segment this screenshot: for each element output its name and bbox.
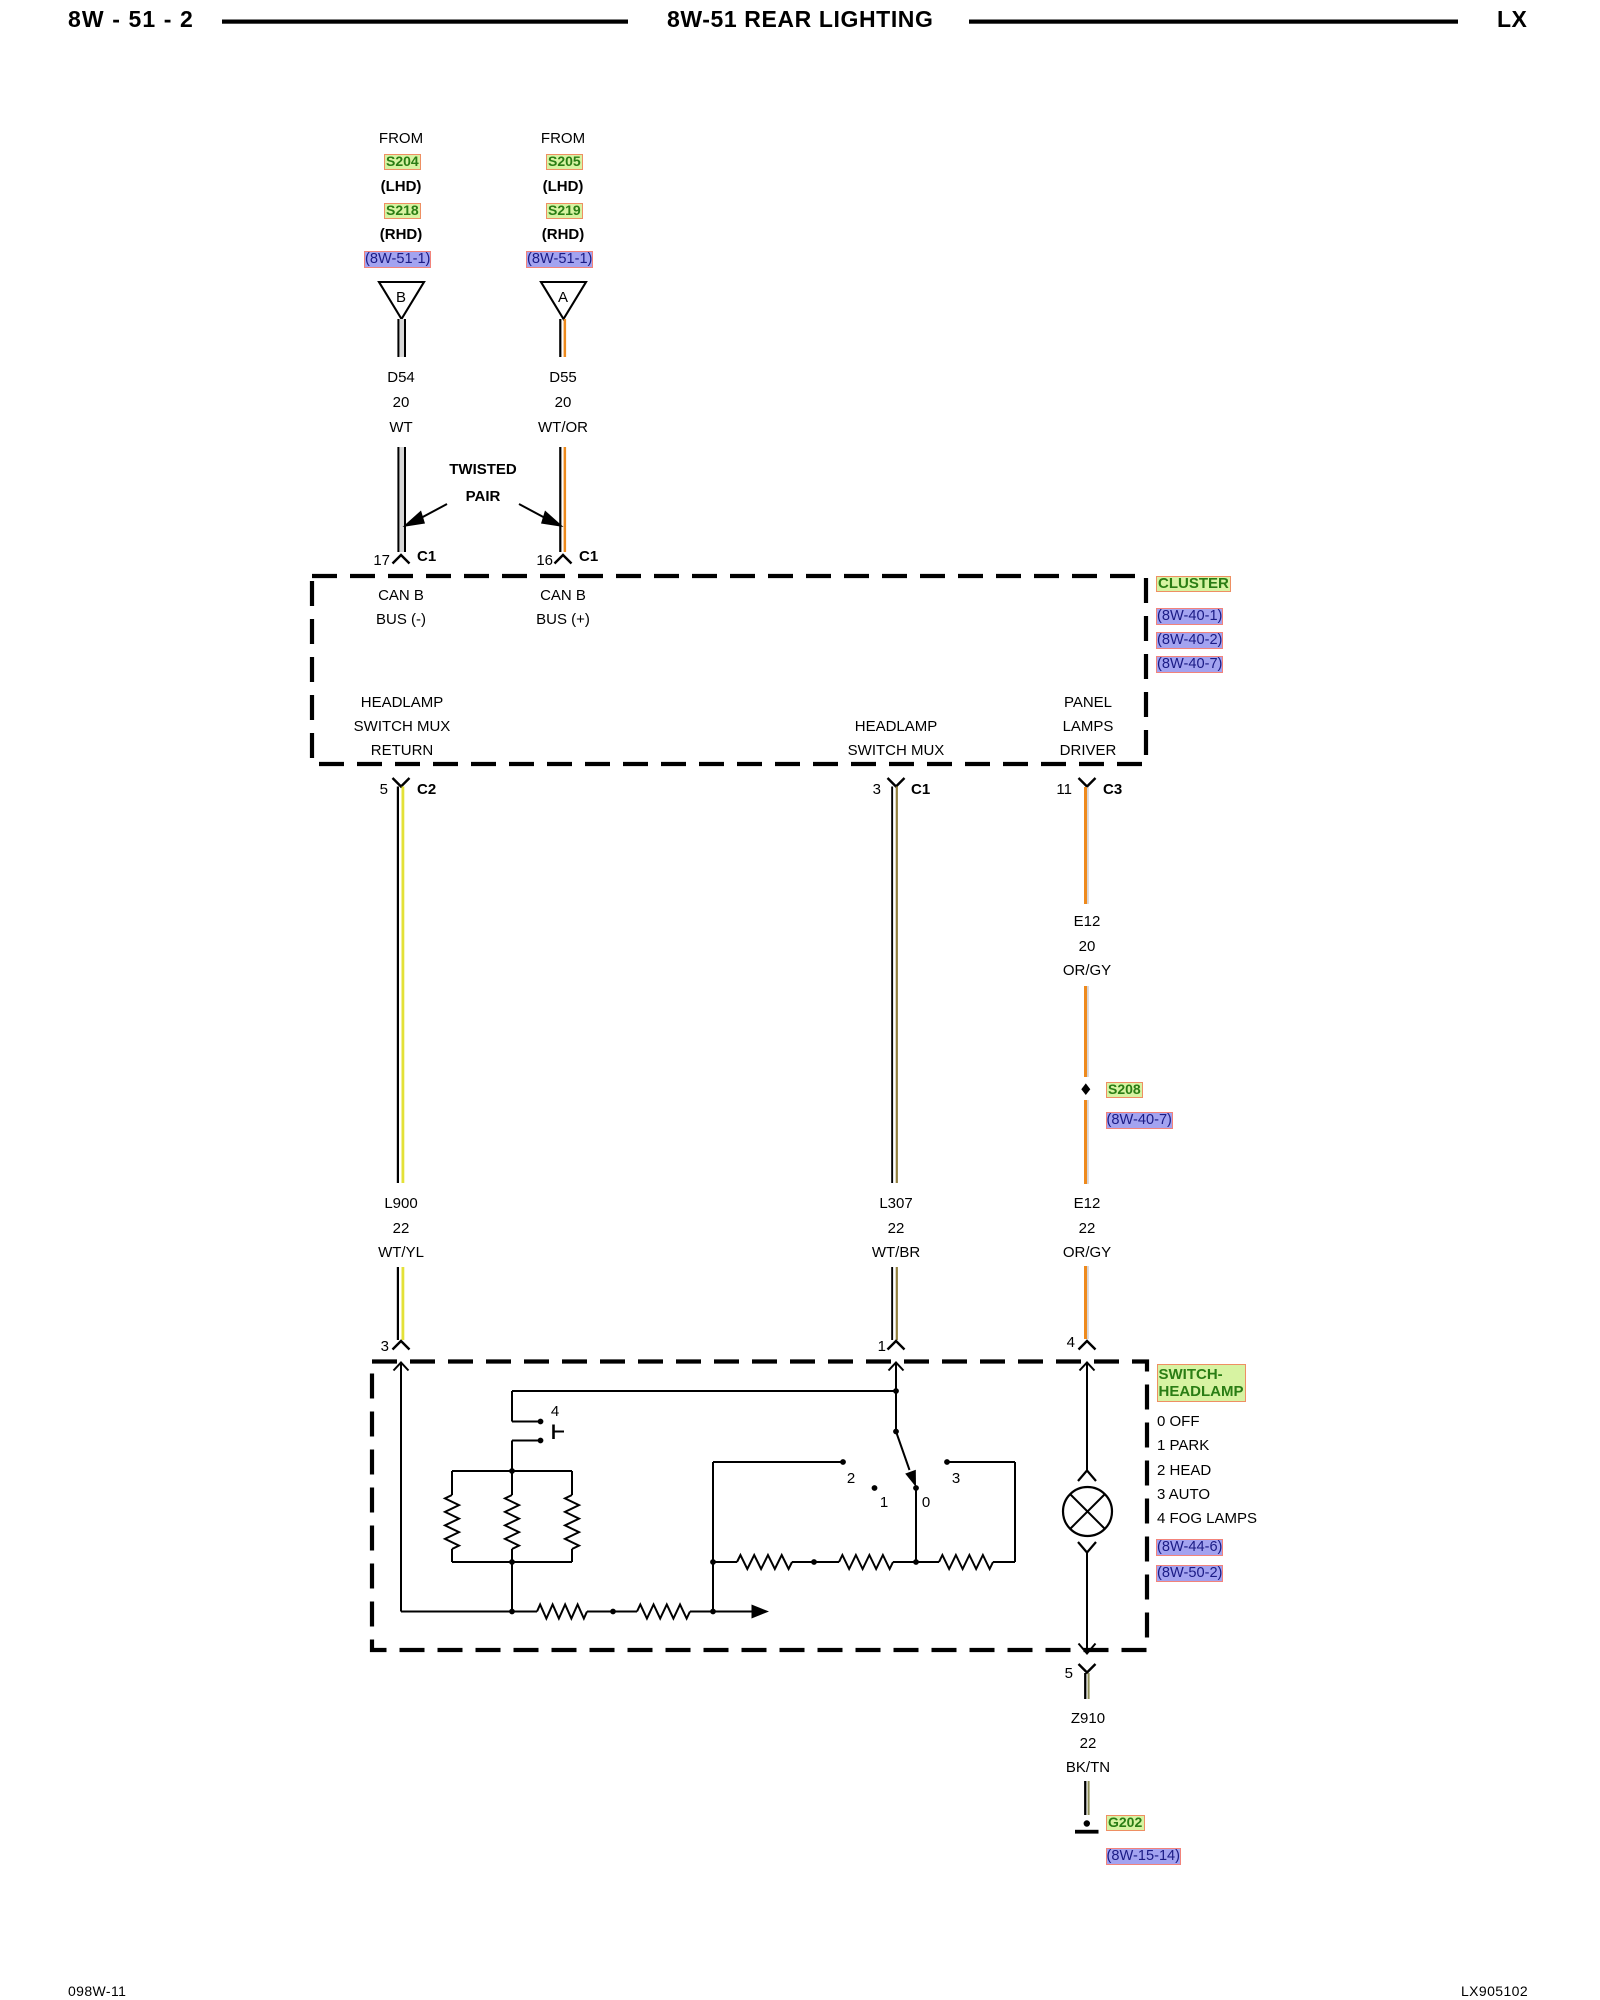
wire pin3 vertical bbox=[400, 1363, 402, 1612]
page link 8W-40-7 splice bbox=[1106, 1112, 1173, 1129]
contact 1 dot bbox=[872, 1485, 878, 1491]
resistor rheostat right bbox=[939, 1555, 993, 1569]
pin number 11 C3 bbox=[1012, 781, 1072, 799]
module name CLUSTER bbox=[1156, 576, 1232, 592]
connector name C2 bbox=[417, 781, 436, 799]
wire bottom rail left bbox=[401, 1611, 537, 1613]
lamp bottom chevron bbox=[1078, 1542, 1096, 1553]
label LHD left bbox=[321, 178, 481, 196]
switch arm with arrowhead bbox=[896, 1432, 916, 1488]
pin number 16 bbox=[493, 552, 553, 570]
page link 8W-40-2 bbox=[1156, 632, 1223, 649]
connector name C3 bbox=[1103, 781, 1122, 799]
splice S208 diamond bbox=[1081, 1083, 1090, 1095]
junction dot wiper bbox=[710, 1609, 716, 1615]
splice ref S208 bbox=[1106, 1082, 1144, 1098]
pin 4 entry chevron bbox=[1079, 1341, 1096, 1350]
wire gauge 22 L307 bbox=[816, 1220, 976, 1238]
resistor rheostat middle bbox=[839, 1555, 893, 1569]
wire color WT bbox=[321, 419, 481, 437]
junction dot mux top bbox=[893, 1388, 899, 1394]
switch arm junction dot bbox=[893, 1429, 899, 1435]
wire label Z910 bbox=[1008, 1710, 1168, 1728]
resistor bank top rail bbox=[452, 1470, 572, 1472]
wire E12 OR/GY segment 3 bbox=[1084, 1100, 1089, 1184]
wire color WT/OR bbox=[483, 419, 643, 437]
twisted pair callout arrow left bbox=[403, 504, 448, 527]
wire label D54 bbox=[321, 369, 481, 387]
wire color WT/YL bbox=[321, 1244, 481, 1262]
pin number 3 switch bbox=[329, 1338, 389, 1356]
label HEADLAMP mux 1 bbox=[816, 718, 976, 736]
pin 3 connector fork C1 bbox=[888, 778, 905, 787]
contact label 1 bbox=[804, 1494, 964, 1512]
label CAN B right bbox=[483, 587, 643, 605]
legend 1 PARK bbox=[1157, 1437, 1209, 1455]
footer drawing number bbox=[1461, 1982, 1528, 2000]
resistor bank left leg bbox=[445, 1471, 459, 1562]
pin 5 connector fork bbox=[1079, 1664, 1096, 1673]
wire L307 WT/BR upper segment bbox=[891, 787, 898, 1184]
splice ref S204 bbox=[384, 154, 422, 170]
resistor bank middle leg bbox=[505, 1471, 519, 1562]
rheostat rail segment d bbox=[993, 1561, 1015, 1563]
resistor bank bottom rail bbox=[452, 1561, 572, 1563]
wire E12 OR/GY segment 2 bbox=[1084, 986, 1089, 1077]
junction dot bottom rail bbox=[610, 1609, 616, 1615]
label RETURN bbox=[322, 742, 482, 760]
fog switch lower stub bbox=[512, 1438, 543, 1444]
page link 8W-44-6 bbox=[1156, 1539, 1223, 1556]
label FROM right bbox=[483, 130, 643, 148]
junction dot rheostat left bbox=[710, 1559, 716, 1565]
label DRIVER bbox=[1008, 742, 1168, 760]
exit arrow pin 5 bbox=[1079, 1644, 1096, 1654]
wire fog to resistor bank bbox=[511, 1441, 513, 1472]
wire gauge 20 E12 bbox=[1007, 938, 1167, 956]
wire label L307 bbox=[816, 1195, 976, 1213]
wire pin4 vertical bbox=[1086, 1363, 1088, 1471]
wire label E12 upper bbox=[1007, 913, 1167, 931]
junction dot bottom rail mid bbox=[509, 1609, 515, 1615]
label CAN B left bbox=[321, 587, 481, 605]
page link 8W-51-1 right bbox=[526, 251, 593, 268]
legend 3 AUTO bbox=[1157, 1486, 1210, 1504]
page link 8W-15-14 bbox=[1106, 1848, 1182, 1865]
wire D55 WT/OR upper segment bbox=[559, 319, 566, 357]
pin number 1 switch bbox=[826, 1338, 886, 1356]
wiper output arrow bbox=[713, 1605, 769, 1619]
contact label 3 bbox=[876, 1470, 1036, 1488]
fog contact label 4 bbox=[475, 1403, 635, 1421]
label FROM left bbox=[321, 130, 481, 148]
wire Z910 BK/TN lower segment bbox=[1084, 1781, 1090, 1815]
callout PAIR bbox=[403, 488, 563, 506]
page link 8W-40-1 bbox=[1156, 608, 1223, 625]
wire L900 WT/YL lower segment bbox=[397, 1267, 405, 1340]
entry arrow pin 3 bbox=[394, 1363, 409, 1371]
contact 0 dot bbox=[913, 1485, 919, 1491]
footer sheet number bbox=[68, 1982, 126, 2000]
wire label E12 lower bbox=[1007, 1195, 1167, 1213]
fog switch upper stub bbox=[512, 1419, 543, 1425]
wire pin1 vertical bbox=[895, 1363, 897, 1432]
wire to wiper junction bbox=[690, 1611, 713, 1613]
pin number 5 C2 bbox=[328, 781, 388, 799]
entry arrow pin 4 bbox=[1080, 1363, 1095, 1371]
connector name C1 right bbox=[579, 548, 598, 566]
lamp top chevron bbox=[1078, 1471, 1096, 1482]
contact 3 dot bbox=[944, 1459, 950, 1465]
wire gauge 22 Z910 bbox=[1008, 1735, 1168, 1753]
wire fog feed corner down bbox=[511, 1391, 513, 1422]
wire gauge 22 E12 bbox=[1007, 1220, 1167, 1238]
page link 8W-40-7 cluster bbox=[1156, 656, 1223, 673]
wire color WT/BR bbox=[816, 1244, 976, 1262]
pin number 5 switch bbox=[1013, 1665, 1073, 1683]
pin 16 connector chevron C1 bbox=[555, 555, 572, 564]
rheostat rail segment c bbox=[893, 1561, 939, 1563]
wire D55 WT/OR lower segment bbox=[559, 447, 566, 552]
pin 17 connector chevron C1 bbox=[393, 555, 410, 564]
legend 2 HEAD bbox=[1157, 1462, 1211, 1480]
rheostat rail segment b bbox=[792, 1561, 839, 1563]
wire gauge 20 right bbox=[483, 394, 643, 412]
label LAMPS bbox=[1008, 718, 1168, 736]
splice ref S205 bbox=[546, 154, 584, 170]
wire label L900 bbox=[321, 1195, 481, 1213]
ground G202 symbol bbox=[1075, 1820, 1099, 1833]
platform code header bbox=[1497, 10, 1527, 28]
wire bank to bottom rail bbox=[511, 1562, 513, 1612]
rheostat rail segment a bbox=[713, 1561, 737, 1563]
pin number 4 switch bbox=[1015, 1334, 1075, 1352]
junction dot rheostat mid-right bbox=[913, 1559, 919, 1565]
wire D54 WT lower segment bbox=[397, 447, 406, 552]
SWITCH-HEADLAMP module dashed box bbox=[372, 1362, 1147, 1651]
fog switch contact bar bbox=[554, 1425, 565, 1440]
callout TWISTED bbox=[403, 461, 563, 479]
legend 0 OFF bbox=[1157, 1413, 1200, 1431]
header rule right bbox=[969, 20, 1458, 24]
pin 5 connector fork C2 bbox=[393, 778, 410, 787]
wire L307 WT/BR lower segment bbox=[891, 1267, 898, 1340]
label RHD left bbox=[321, 226, 481, 244]
pin 11 connector fork C3 bbox=[1079, 778, 1096, 787]
entry arrow pin 1 bbox=[889, 1363, 904, 1371]
splice ref S219 bbox=[546, 203, 584, 219]
label RHD right bbox=[483, 226, 643, 244]
panel lamp bulb bbox=[1063, 1487, 1112, 1536]
connector name C1 mux bbox=[911, 781, 930, 799]
wire color OR/GY upper bbox=[1007, 962, 1167, 980]
triangle letter A bbox=[483, 289, 643, 307]
wire lamp to pin5 bbox=[1086, 1553, 1088, 1654]
wire E12 OR/GY segment 4 bbox=[1084, 1266, 1089, 1339]
wire contact 2 to left drop bbox=[713, 1462, 843, 1612]
page title header bbox=[667, 10, 934, 28]
wire E12 OR/GY segment 1 bbox=[1084, 787, 1089, 904]
contact label 0 bbox=[846, 1494, 1006, 1512]
pin 1 entry chevron bbox=[888, 1341, 905, 1350]
ground ref G202 bbox=[1106, 1815, 1145, 1831]
page number header bbox=[68, 10, 194, 28]
wire D54 WT upper segment bbox=[397, 319, 406, 357]
page link 8W-50-2 bbox=[1156, 1565, 1223, 1582]
contact label 2 bbox=[771, 1470, 931, 1488]
resistor bank right leg bbox=[565, 1471, 579, 1562]
off-page connector triangle A bbox=[541, 282, 586, 319]
pin 3 entry chevron bbox=[393, 1341, 410, 1350]
label LHD right bbox=[483, 178, 643, 196]
wire gauge 22 L900 bbox=[321, 1220, 481, 1238]
contact 2 dot bbox=[840, 1459, 846, 1465]
label HEADLAMP return 1 bbox=[322, 694, 482, 712]
wire color BK/TN bbox=[1008, 1759, 1168, 1777]
junction dot bank bottom bbox=[509, 1559, 515, 1565]
resistor bottom-right bbox=[637, 1605, 690, 1619]
wire fog feed horizontal bbox=[512, 1390, 896, 1392]
pin number 3 C1 bbox=[821, 781, 881, 799]
wire contact 3 to right drop bbox=[947, 1462, 1015, 1562]
wire color OR/GY lower bbox=[1007, 1244, 1167, 1262]
resistor rheostat left bbox=[737, 1555, 792, 1569]
twisted pair callout arrow right bbox=[519, 504, 564, 527]
legend 4 FOG LAMPS bbox=[1157, 1510, 1257, 1528]
junction dot bank top bbox=[509, 1468, 515, 1474]
pin number 17 bbox=[330, 552, 390, 570]
splice ref S218 bbox=[384, 203, 422, 219]
label BUS plus bbox=[483, 611, 643, 629]
connector name C1 left bbox=[417, 548, 436, 566]
triangle letter B bbox=[321, 289, 481, 307]
CLUSTER module dashed box bbox=[312, 576, 1146, 764]
page link 8W-51-1 left bbox=[364, 251, 431, 268]
label BUS minus bbox=[321, 611, 481, 629]
label PANEL bbox=[1008, 694, 1168, 712]
off-page connector triangle B bbox=[379, 282, 424, 319]
label SWITCH MUX return 2 bbox=[322, 718, 482, 736]
wire contact 0 drop bbox=[915, 1488, 917, 1562]
wire gauge 20 left bbox=[321, 394, 481, 412]
module name SWITCH-HEADLAMP bbox=[1157, 1364, 1246, 1402]
label SWITCH MUX mux 2 bbox=[816, 742, 976, 760]
wire label D55 bbox=[483, 369, 643, 387]
header rule left bbox=[222, 20, 628, 24]
junction dot rheostat mid-left bbox=[811, 1559, 817, 1565]
wire L900 WT/YL upper segment bbox=[397, 787, 405, 1184]
resistor bottom-left bbox=[537, 1605, 587, 1619]
wire Z910 BK/TN upper segment bbox=[1084, 1673, 1090, 1699]
wire between bottom resistors bbox=[587, 1611, 637, 1613]
